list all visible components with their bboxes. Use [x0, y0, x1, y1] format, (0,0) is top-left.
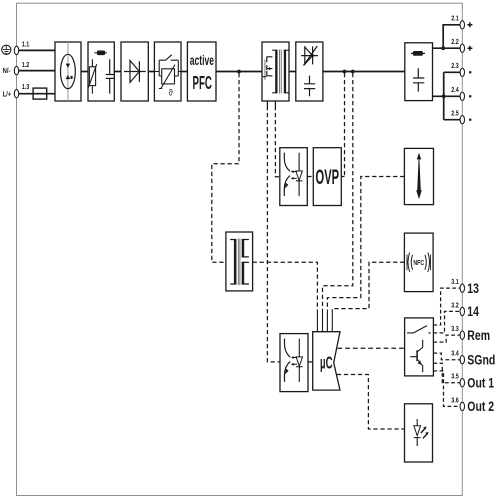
terminal 3.3 — [460, 331, 464, 339]
terminal 3.6 — [460, 402, 464, 410]
dashed: opto-OVP link — [307, 176, 313, 178]
terminal 2.5 — [460, 116, 464, 124]
terminal 2.4 — [460, 92, 464, 100]
svg-text:2.5: 2.5 — [451, 110, 459, 118]
svg-text:3.3: 3.3 — [451, 325, 459, 333]
ground PE symbol — [2, 45, 11, 54]
svg-text:OVP: OVP — [316, 165, 340, 189]
dashed: Out2 3.6 — [433, 371, 460, 407]
terminal 1.1 — [14, 46, 18, 54]
wire DC bus to converter — [216, 71, 262, 73]
node: bus to OVP — [343, 70, 347, 74]
terminal 3.5 — [460, 379, 464, 387]
fuse F1 — [33, 88, 47, 99]
svg-text:PFC: PFC — [193, 74, 213, 94]
terminal 3.1 — [460, 284, 464, 292]
block: microcontroller uC — [313, 332, 340, 390]
svg-text:active: active — [190, 54, 215, 68]
block: status LED — [405, 404, 433, 462]
wire DC output bus — [323, 71, 405, 73]
svg-text:NFC: NFC — [413, 259, 424, 267]
dashed: bus to aux transformer — [212, 73, 239, 262]
wire 1.1 — [19, 49, 55, 51]
dashed: Rem 3.3 — [433, 335, 460, 342]
dashed: opto to uC — [308, 361, 313, 363]
dashed: converter to OVP opto — [275, 106, 279, 177]
dashed: relay contact to 3.2 — [433, 311, 460, 333]
wire — [148, 71, 154, 73]
svg-text:3.6: 3.6 — [451, 397, 459, 405]
svg-text:Rem: Rem — [467, 327, 490, 343]
svg-text:SGnd: SGnd — [467, 352, 495, 368]
svg-text:L/+: L/+ — [3, 91, 12, 99]
dashed: NFC line to uC — [332, 262, 404, 310]
wire — [181, 71, 187, 73]
wire output + — [433, 25, 461, 120]
node: output - junction — [442, 94, 446, 98]
terminal 1.3 — [14, 90, 18, 98]
node: output + junction — [441, 46, 445, 50]
dashed: bus sense to uC — [323, 73, 353, 310]
block: NFC interface — [404, 233, 433, 292]
dashed: uC to LED block — [337, 375, 405, 430]
dashed: converter to feedback opto — [267, 106, 280, 362]
block: active PFC — [187, 42, 216, 101]
block: secondary rectifier + capacitor — [296, 42, 323, 101]
wire — [114, 71, 121, 73]
block: inrush current limiter — [55, 42, 81, 101]
dashed: aux transformer to uC — [253, 262, 318, 310]
block: opto OVP shutdown — [280, 148, 308, 206]
wire — [289, 71, 296, 73]
svg-text:2.4: 2.4 — [451, 86, 459, 94]
node: bus to uC sense — [351, 70, 355, 74]
svg-text:ϑ: ϑ — [169, 87, 173, 98]
svg-text:13: 13 — [467, 280, 479, 296]
dashed: relay contact to 3.1 — [433, 288, 460, 325]
dashed: potentiometer line to uC — [327, 177, 404, 311]
svg-text:N/-: N/- — [3, 68, 11, 76]
svg-text:3.5: 3.5 — [451, 373, 459, 381]
svg-text:1.3: 1.3 — [22, 83, 30, 91]
terminal 2.1 — [460, 21, 464, 29]
terminal 2.2 — [460, 44, 464, 52]
dashed: OVP sense from bus — [341, 73, 344, 177]
svg-text:1.2: 1.2 — [22, 61, 30, 69]
block: OVP — [313, 148, 341, 206]
uC top connection lines (solid ends) — [317, 310, 332, 332]
block: input filter varistor+capacitor — [88, 42, 114, 101]
dashed: uC to signal relay block — [338, 347, 405, 349]
wire 1.3 — [19, 93, 55, 95]
block: converter MOSFET + transformer T1 — [262, 42, 289, 107]
svg-text:Out 2: Out 2 — [467, 399, 494, 415]
dashed: Out1 3.5 — [433, 363, 460, 383]
terminal 3.4 — [460, 356, 464, 364]
block: output filter — [405, 43, 433, 101]
svg-text:14: 14 — [467, 304, 479, 320]
wire 1.2 — [19, 70, 55, 72]
block: feedback optocoupler — [280, 334, 308, 392]
wire — [81, 71, 88, 73]
block: auxiliary transformer — [226, 232, 253, 291]
block: NTC inrush with bypass contact — [154, 42, 181, 101]
block: output voltage potentiometer — [404, 148, 433, 204]
svg-text:3.1: 3.1 — [451, 278, 459, 286]
block: rectifier diode — [121, 42, 148, 101]
svg-text:Out 1: Out 1 — [467, 375, 494, 391]
svg-text:3.2: 3.2 — [451, 302, 459, 310]
block: signalling relay + transistor — [405, 318, 434, 376]
svg-text:1.1: 1.1 — [22, 41, 30, 49]
terminal 2.3 — [460, 68, 464, 76]
svg-text:µC: µC — [320, 352, 332, 372]
svg-text:2.3: 2.3 — [451, 62, 459, 70]
node: bus to aux transformer — [237, 70, 241, 74]
svg-text:2.1: 2.1 — [451, 15, 459, 23]
polarity marks — [467, 22, 472, 119]
terminal 1.2 — [14, 66, 18, 74]
svg-text:2.2: 2.2 — [451, 38, 459, 46]
dashed: SGnd 3.4 — [433, 353, 460, 360]
svg-text:3.4: 3.4 — [451, 350, 459, 358]
terminal 3.2 — [460, 307, 464, 315]
